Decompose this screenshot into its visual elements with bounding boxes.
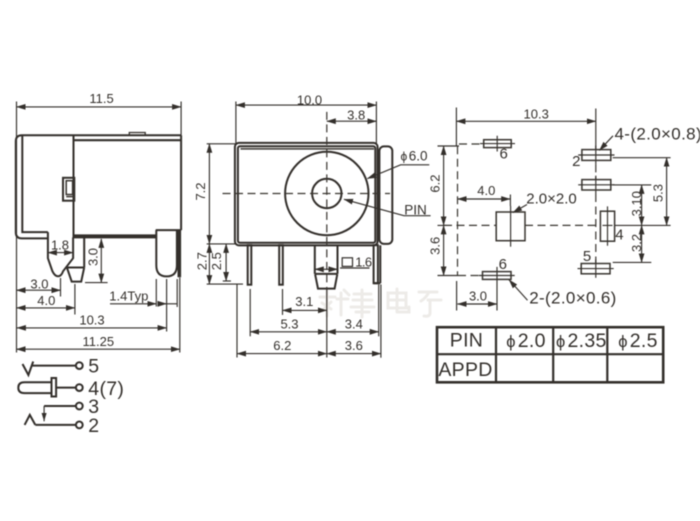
svg-text:11.5: 11.5 [89, 91, 113, 106]
svg-text:PIN: PIN [404, 202, 427, 217]
svg-text:10.3: 10.3 [524, 107, 549, 122]
svg-text:2-(2.0×0.6): 2-(2.0×0.6) [529, 288, 616, 307]
svg-text:3.8: 3.8 [347, 107, 365, 122]
svg-text:5.3: 5.3 [650, 184, 665, 202]
svg-text:4.0: 4.0 [477, 183, 495, 198]
svg-text:4: 4 [615, 227, 623, 244]
svg-text:1.8: 1.8 [51, 237, 69, 252]
svg-text:3.0: 3.0 [30, 277, 48, 292]
svg-text:APPD: APPD [438, 359, 492, 381]
svg-text:ϕ2.5: ϕ2.5 [618, 330, 658, 352]
svg-text:1.6: 1.6 [355, 255, 372, 270]
svg-text:4.0: 4.0 [37, 293, 55, 308]
svg-text:3.6: 3.6 [345, 338, 363, 353]
svg-text:3.2: 3.2 [629, 234, 644, 252]
svg-text:6.2: 6.2 [273, 338, 291, 353]
svg-text:2.7: 2.7 [195, 252, 210, 270]
svg-text:3.0: 3.0 [469, 288, 487, 303]
svg-text:6: 6 [500, 145, 508, 162]
svg-text:ϕ2.0: ϕ2.0 [506, 330, 546, 352]
svg-text:11.25: 11.25 [83, 334, 115, 349]
svg-text:10.0: 10.0 [297, 92, 322, 107]
svg-text:ϕ6.0: ϕ6.0 [401, 149, 428, 164]
svg-text:5: 5 [88, 356, 99, 378]
svg-text:7.2: 7.2 [193, 182, 208, 200]
svg-text:2: 2 [572, 153, 580, 170]
svg-text:1.4Typ: 1.4Typ [109, 289, 148, 304]
svg-text:5.3: 5.3 [280, 316, 298, 331]
svg-text:10.3: 10.3 [79, 313, 104, 328]
svg-text:3.4: 3.4 [345, 316, 363, 331]
svg-text:3.0: 3.0 [85, 248, 100, 266]
svg-text:6: 6 [499, 256, 507, 273]
svg-text:3.6: 3.6 [427, 237, 442, 255]
svg-text:2.5: 2.5 [209, 252, 224, 270]
svg-text:2: 2 [88, 415, 99, 437]
svg-text:6.2: 6.2 [427, 175, 442, 193]
svg-text:3.10: 3.10 [629, 191, 644, 216]
svg-text:PIN: PIN [450, 330, 483, 352]
svg-text:3.1: 3.1 [295, 294, 313, 309]
svg-text:4-(2.0×0.8): 4-(2.0×0.8) [615, 125, 700, 144]
svg-text:5: 5 [583, 248, 591, 265]
svg-text:ϕ2.35: ϕ2.35 [556, 330, 607, 352]
svg-text:2.0×2.0: 2.0×2.0 [526, 190, 576, 207]
